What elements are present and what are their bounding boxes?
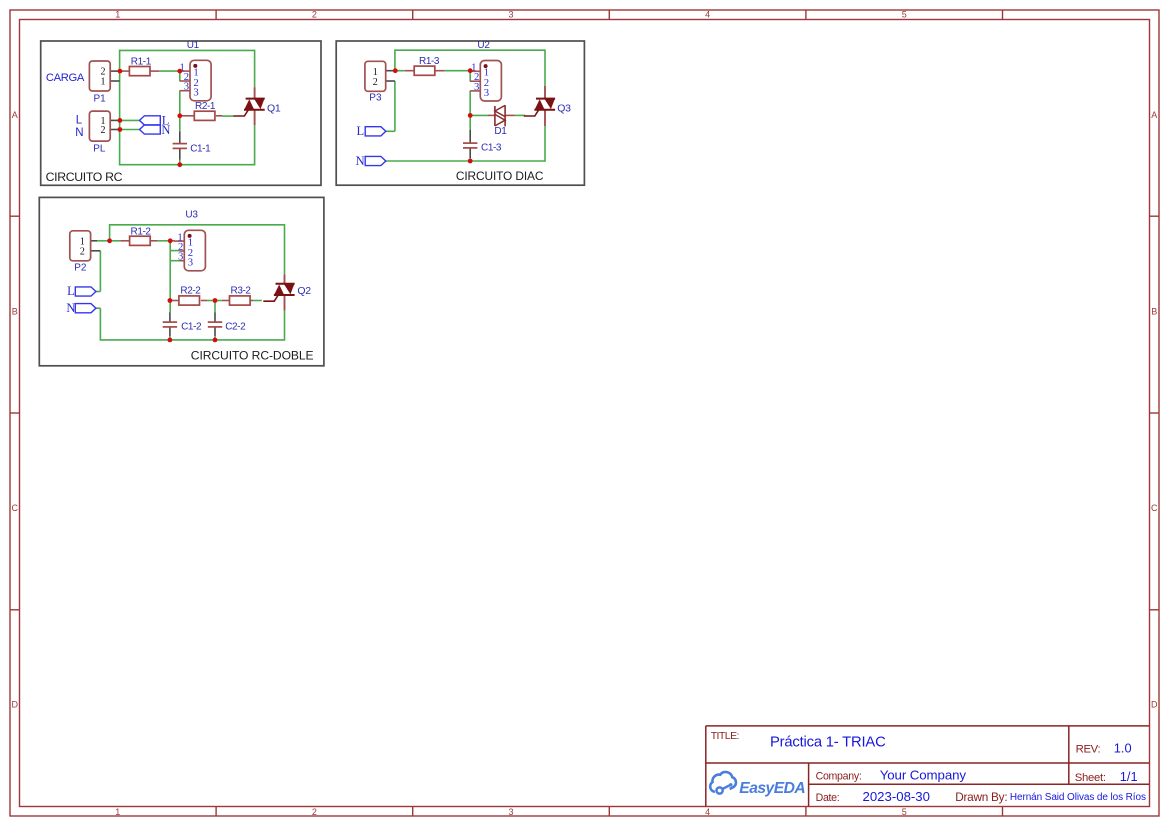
svg-text:3: 3 xyxy=(188,257,193,269)
svg-text:CIRCUITO DIAC: CIRCUITO DIAC xyxy=(456,169,544,183)
svg-text:PL: PL xyxy=(93,144,106,155)
svg-text:C2-2: C2-2 xyxy=(225,322,246,333)
svg-text:N: N xyxy=(75,127,83,139)
svg-text:Hernán Said Olivas de los Ríos: Hernán Said Olivas de los Ríos xyxy=(1010,792,1146,803)
svg-text:Company:: Company: xyxy=(816,771,862,783)
svg-text:B: B xyxy=(12,307,18,317)
svg-text:2: 2 xyxy=(101,125,106,136)
svg-text:P3: P3 xyxy=(369,92,382,103)
svg-text:CIRCUITO RC-DOBLE: CIRCUITO RC-DOBLE xyxy=(191,349,314,363)
svg-text:D1: D1 xyxy=(494,126,507,137)
svg-text:P1: P1 xyxy=(94,93,107,104)
svg-text:C1-3: C1-3 xyxy=(481,142,502,153)
svg-text:U2: U2 xyxy=(477,40,490,51)
svg-text:C1-2: C1-2 xyxy=(181,322,202,333)
svg-text:U1: U1 xyxy=(187,40,200,51)
svg-text:Your Company: Your Company xyxy=(880,768,967,783)
svg-text:L: L xyxy=(357,124,365,138)
svg-text:1: 1 xyxy=(115,9,120,19)
svg-text:C: C xyxy=(11,503,18,513)
svg-text:1/1: 1/1 xyxy=(1120,769,1138,784)
svg-text:A: A xyxy=(1151,110,1157,120)
svg-text:N: N xyxy=(356,154,365,168)
svg-text:R1-3: R1-3 xyxy=(419,56,440,67)
svg-text:1: 1 xyxy=(101,77,106,88)
svg-text:Drawn By:: Drawn By: xyxy=(955,790,1007,804)
svg-text:1: 1 xyxy=(115,807,120,817)
svg-text:3: 3 xyxy=(474,81,479,93)
svg-text:TITLE:: TITLE: xyxy=(711,730,739,742)
svg-text:Práctica 1- TRIAC: Práctica 1- TRIAC xyxy=(770,734,886,750)
svg-text:P2: P2 xyxy=(74,263,87,274)
svg-text:N: N xyxy=(161,123,170,137)
svg-text:B: B xyxy=(1151,307,1157,317)
svg-text:R2-2: R2-2 xyxy=(180,285,201,296)
svg-text:C1-1: C1-1 xyxy=(190,143,211,154)
svg-text:3: 3 xyxy=(484,87,489,99)
svg-text:A: A xyxy=(12,110,18,120)
svg-text:2: 2 xyxy=(373,77,378,88)
svg-text:D: D xyxy=(11,700,18,710)
svg-text:CARGA: CARGA xyxy=(46,72,85,84)
svg-text:R1-1: R1-1 xyxy=(131,57,152,68)
svg-text:3: 3 xyxy=(193,87,198,99)
svg-text:2: 2 xyxy=(312,9,317,19)
svg-text:3: 3 xyxy=(508,807,513,817)
svg-text:U3: U3 xyxy=(185,210,198,221)
svg-text:EasyEDA: EasyEDA xyxy=(739,780,805,797)
svg-text:1.0: 1.0 xyxy=(1114,740,1132,755)
svg-text:N: N xyxy=(66,301,75,315)
svg-text:L: L xyxy=(76,115,83,127)
svg-text:C: C xyxy=(1151,503,1158,513)
svg-text:4: 4 xyxy=(705,807,710,817)
svg-text:R3-2: R3-2 xyxy=(231,285,252,296)
svg-text:CIRCUITO RC: CIRCUITO RC xyxy=(46,170,123,184)
svg-text:2: 2 xyxy=(80,247,85,258)
svg-text:L: L xyxy=(67,284,75,298)
svg-text:5: 5 xyxy=(902,807,907,817)
svg-text:2: 2 xyxy=(312,807,317,817)
svg-text:Sheet:: Sheet: xyxy=(1075,772,1106,784)
svg-text:R2-1: R2-1 xyxy=(195,101,216,112)
svg-text:3: 3 xyxy=(508,9,513,19)
svg-text:5: 5 xyxy=(902,9,907,19)
svg-text:3: 3 xyxy=(184,81,189,93)
svg-text:Q3: Q3 xyxy=(557,102,571,114)
svg-text:R1-2: R1-2 xyxy=(131,226,152,237)
svg-text:REV:: REV: xyxy=(1076,743,1101,755)
svg-text:Q1: Q1 xyxy=(267,102,281,114)
svg-text:2023-08-30: 2023-08-30 xyxy=(863,789,930,804)
svg-text:D: D xyxy=(1151,700,1158,710)
svg-text:Q2: Q2 xyxy=(297,285,311,297)
svg-text:Date:: Date: xyxy=(816,792,840,804)
svg-text:4: 4 xyxy=(705,9,710,19)
